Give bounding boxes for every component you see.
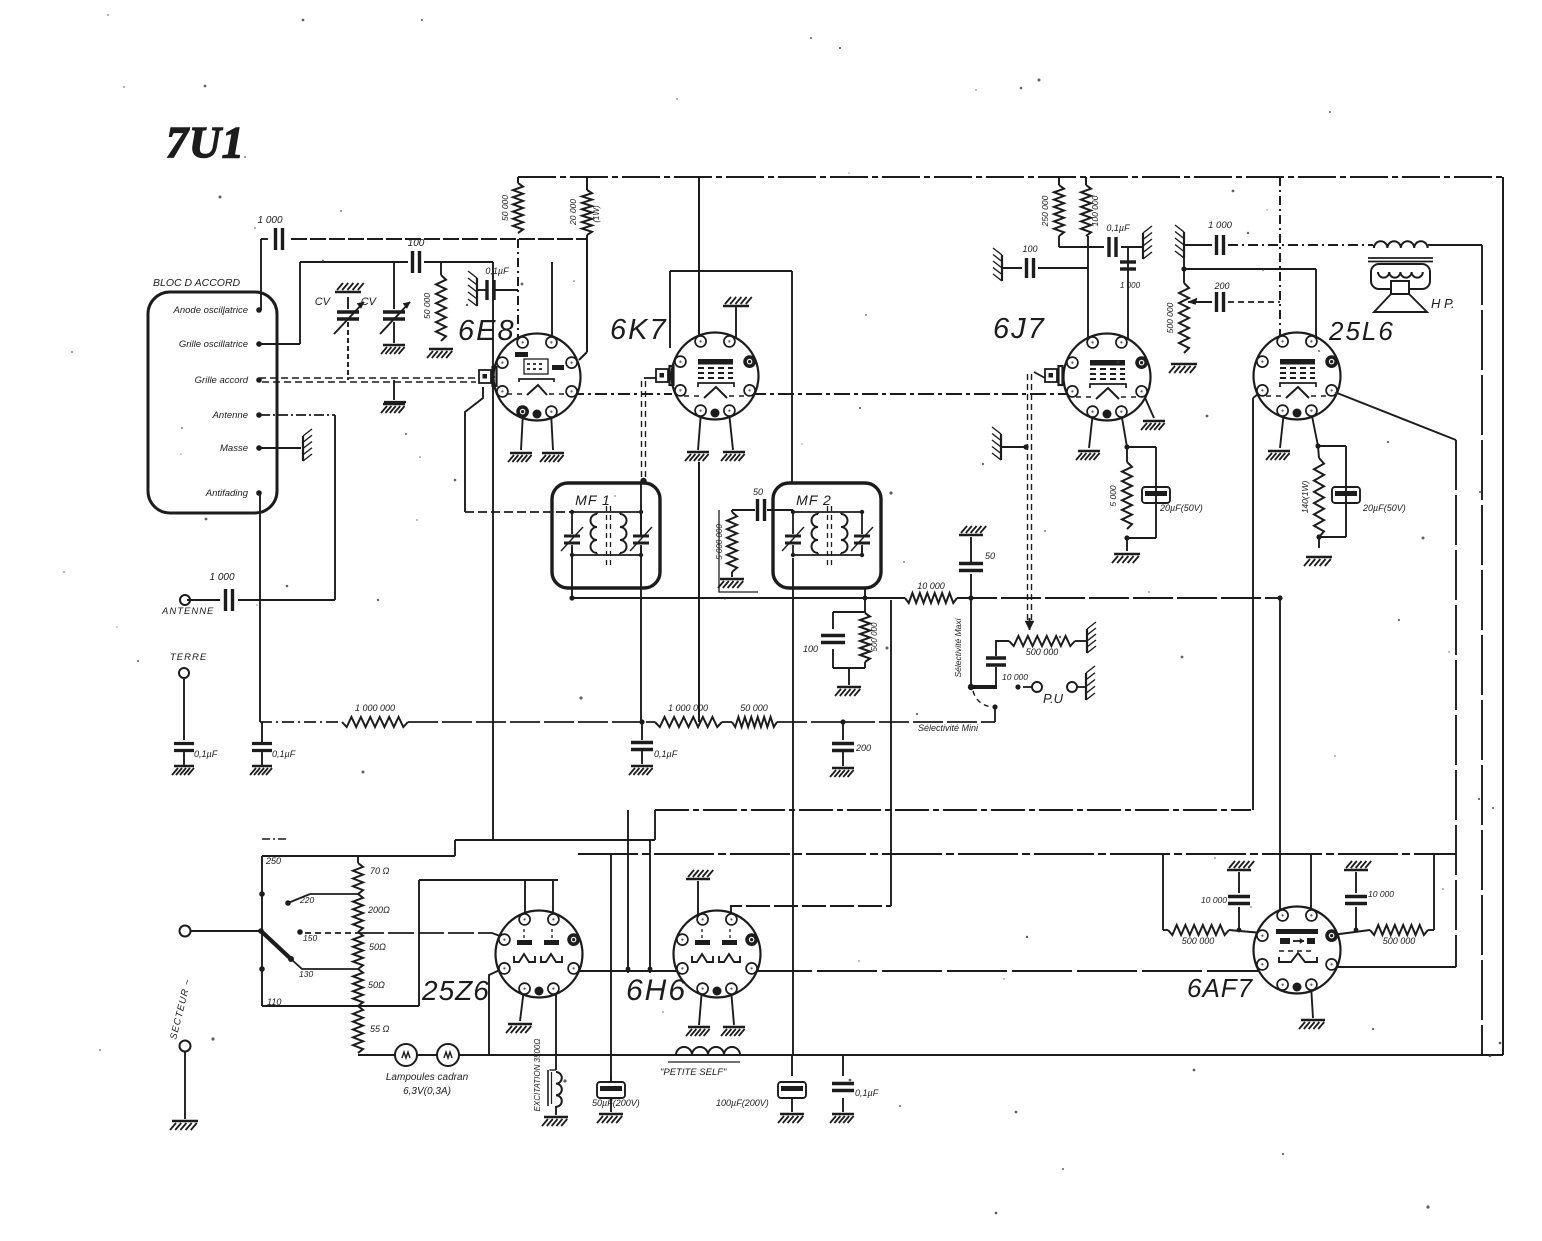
svg-text:70 Ω: 70 Ω xyxy=(370,866,390,876)
svg-text:(1W): (1W) xyxy=(592,205,601,223)
svg-text:250: 250 xyxy=(265,856,281,866)
svg-text:100µF(200V): 100µF(200V) xyxy=(716,1098,769,1108)
svg-text:25L6: 25L6 xyxy=(1328,316,1395,346)
svg-text:1 000 000: 1 000 000 xyxy=(355,703,395,713)
svg-text:10 000: 10 000 xyxy=(1201,895,1227,905)
svg-text:100 000: 100 000 xyxy=(1090,195,1100,226)
svg-text:Antenne: Antenne xyxy=(212,410,248,421)
svg-text:P.U: P.U xyxy=(1043,691,1064,706)
svg-text:0,1µF: 0,1µF xyxy=(194,749,218,759)
svg-text:10 000: 10 000 xyxy=(1368,889,1394,899)
svg-text:250 000: 250 000 xyxy=(1040,195,1050,227)
svg-text:50: 50 xyxy=(985,551,995,561)
svg-text:150: 150 xyxy=(303,933,317,943)
svg-text:50 000: 50 000 xyxy=(500,195,510,221)
svg-text:7U1: 7U1 xyxy=(166,118,245,167)
svg-text:1 000 000: 1 000 000 xyxy=(668,703,708,713)
svg-text:50Ω: 50Ω xyxy=(368,980,385,990)
svg-text:Masse: Masse xyxy=(220,443,248,454)
svg-text:CV: CV xyxy=(361,296,378,308)
svg-text:10 000: 10 000 xyxy=(1002,672,1028,682)
svg-text:"PETITE SELF": "PETITE SELF" xyxy=(660,1067,727,1078)
svg-text:Lampoules cadran: Lampoules cadran xyxy=(386,1072,469,1083)
svg-text:6AF7: 6AF7 xyxy=(1187,973,1254,1003)
svg-text:BLOC D ACCORD: BLOC D ACCORD xyxy=(153,277,241,289)
svg-text:0,1µF: 0,1µF xyxy=(1106,223,1130,233)
svg-text:10 000: 10 000 xyxy=(917,581,945,591)
svg-text:130: 130 xyxy=(299,969,313,979)
svg-text:MF 2: MF 2 xyxy=(796,492,832,508)
svg-text:500 000: 500 000 xyxy=(1026,647,1059,657)
svg-text:100: 100 xyxy=(803,644,818,654)
svg-text:140(1W): 140(1W) xyxy=(1300,481,1310,514)
svg-text:1 000: 1 000 xyxy=(209,572,234,583)
svg-text:500 000: 500 000 xyxy=(870,622,879,651)
svg-text:6H6: 6H6 xyxy=(626,974,687,1007)
svg-text:55 Ω: 55 Ω xyxy=(370,1024,390,1034)
svg-text:50: 50 xyxy=(753,487,763,497)
svg-text:200: 200 xyxy=(855,743,871,753)
svg-text:CV: CV xyxy=(315,296,332,308)
svg-text:ANTENNE: ANTENNE xyxy=(161,606,214,617)
svg-text:100: 100 xyxy=(1022,244,1037,254)
svg-text:50 000: 50 000 xyxy=(422,293,432,319)
svg-text:1 000: 1 000 xyxy=(1208,220,1232,231)
svg-text:6,3V(0,3A): 6,3V(0,3A) xyxy=(403,1086,451,1097)
svg-text:Sélectivité Mini: Sélectivité Mini xyxy=(918,723,979,733)
svg-text:500 000: 500 000 xyxy=(1165,302,1175,333)
svg-text:Antifading: Antifading xyxy=(205,488,249,499)
svg-text:110: 110 xyxy=(267,997,281,1007)
svg-text:Sélectivité Maxi: Sélectivité Maxi xyxy=(953,617,963,677)
svg-text:500 000: 500 000 xyxy=(1383,936,1416,946)
svg-text:50 000: 50 000 xyxy=(740,703,768,713)
svg-text:100: 100 xyxy=(408,238,425,249)
svg-text:Grille accord: Grille accord xyxy=(195,375,249,386)
svg-text:5 000: 5 000 xyxy=(1108,485,1118,507)
svg-text:0,1µF: 0,1µF xyxy=(272,749,296,759)
svg-text:20µF(50V): 20µF(50V) xyxy=(1362,503,1406,513)
svg-text:6J7: 6J7 xyxy=(993,313,1046,345)
svg-text:6K7: 6K7 xyxy=(610,314,668,346)
svg-text:EXCITATION 3500Ω: EXCITATION 3500Ω xyxy=(533,1039,542,1112)
svg-text:0,1µF: 0,1µF xyxy=(855,1088,879,1098)
svg-text:500 000: 500 000 xyxy=(1182,936,1215,946)
svg-text:50Ω: 50Ω xyxy=(369,942,386,952)
svg-text:Anode oscillatrice: Anode oscillatrice xyxy=(173,305,248,316)
svg-text:20µF(50V): 20µF(50V) xyxy=(1159,503,1203,513)
svg-text:200: 200 xyxy=(1213,281,1229,291)
svg-text:0,1µF: 0,1µF xyxy=(654,749,678,759)
svg-text:TERRE: TERRE xyxy=(170,652,207,663)
svg-text:H P.: H P. xyxy=(1431,296,1455,311)
svg-text:200Ω: 200Ω xyxy=(367,905,390,915)
svg-text:220: 220 xyxy=(299,895,314,905)
svg-text:Grille oscillatrice: Grille oscillatrice xyxy=(179,339,248,350)
svg-text:1 000: 1 000 xyxy=(1120,281,1141,290)
svg-text:5 000 000: 5 000 000 xyxy=(715,524,724,560)
svg-text:20 000: 20 000 xyxy=(568,199,578,226)
svg-text:25Z6: 25Z6 xyxy=(421,975,490,1006)
svg-text:0,1µF: 0,1µF xyxy=(485,266,509,276)
svg-text:1 000: 1 000 xyxy=(257,215,282,226)
svg-text:6E8: 6E8 xyxy=(458,315,516,347)
svg-text:MF 1: MF 1 xyxy=(575,492,611,508)
svg-text:50µF(200V): 50µF(200V) xyxy=(592,1098,640,1108)
